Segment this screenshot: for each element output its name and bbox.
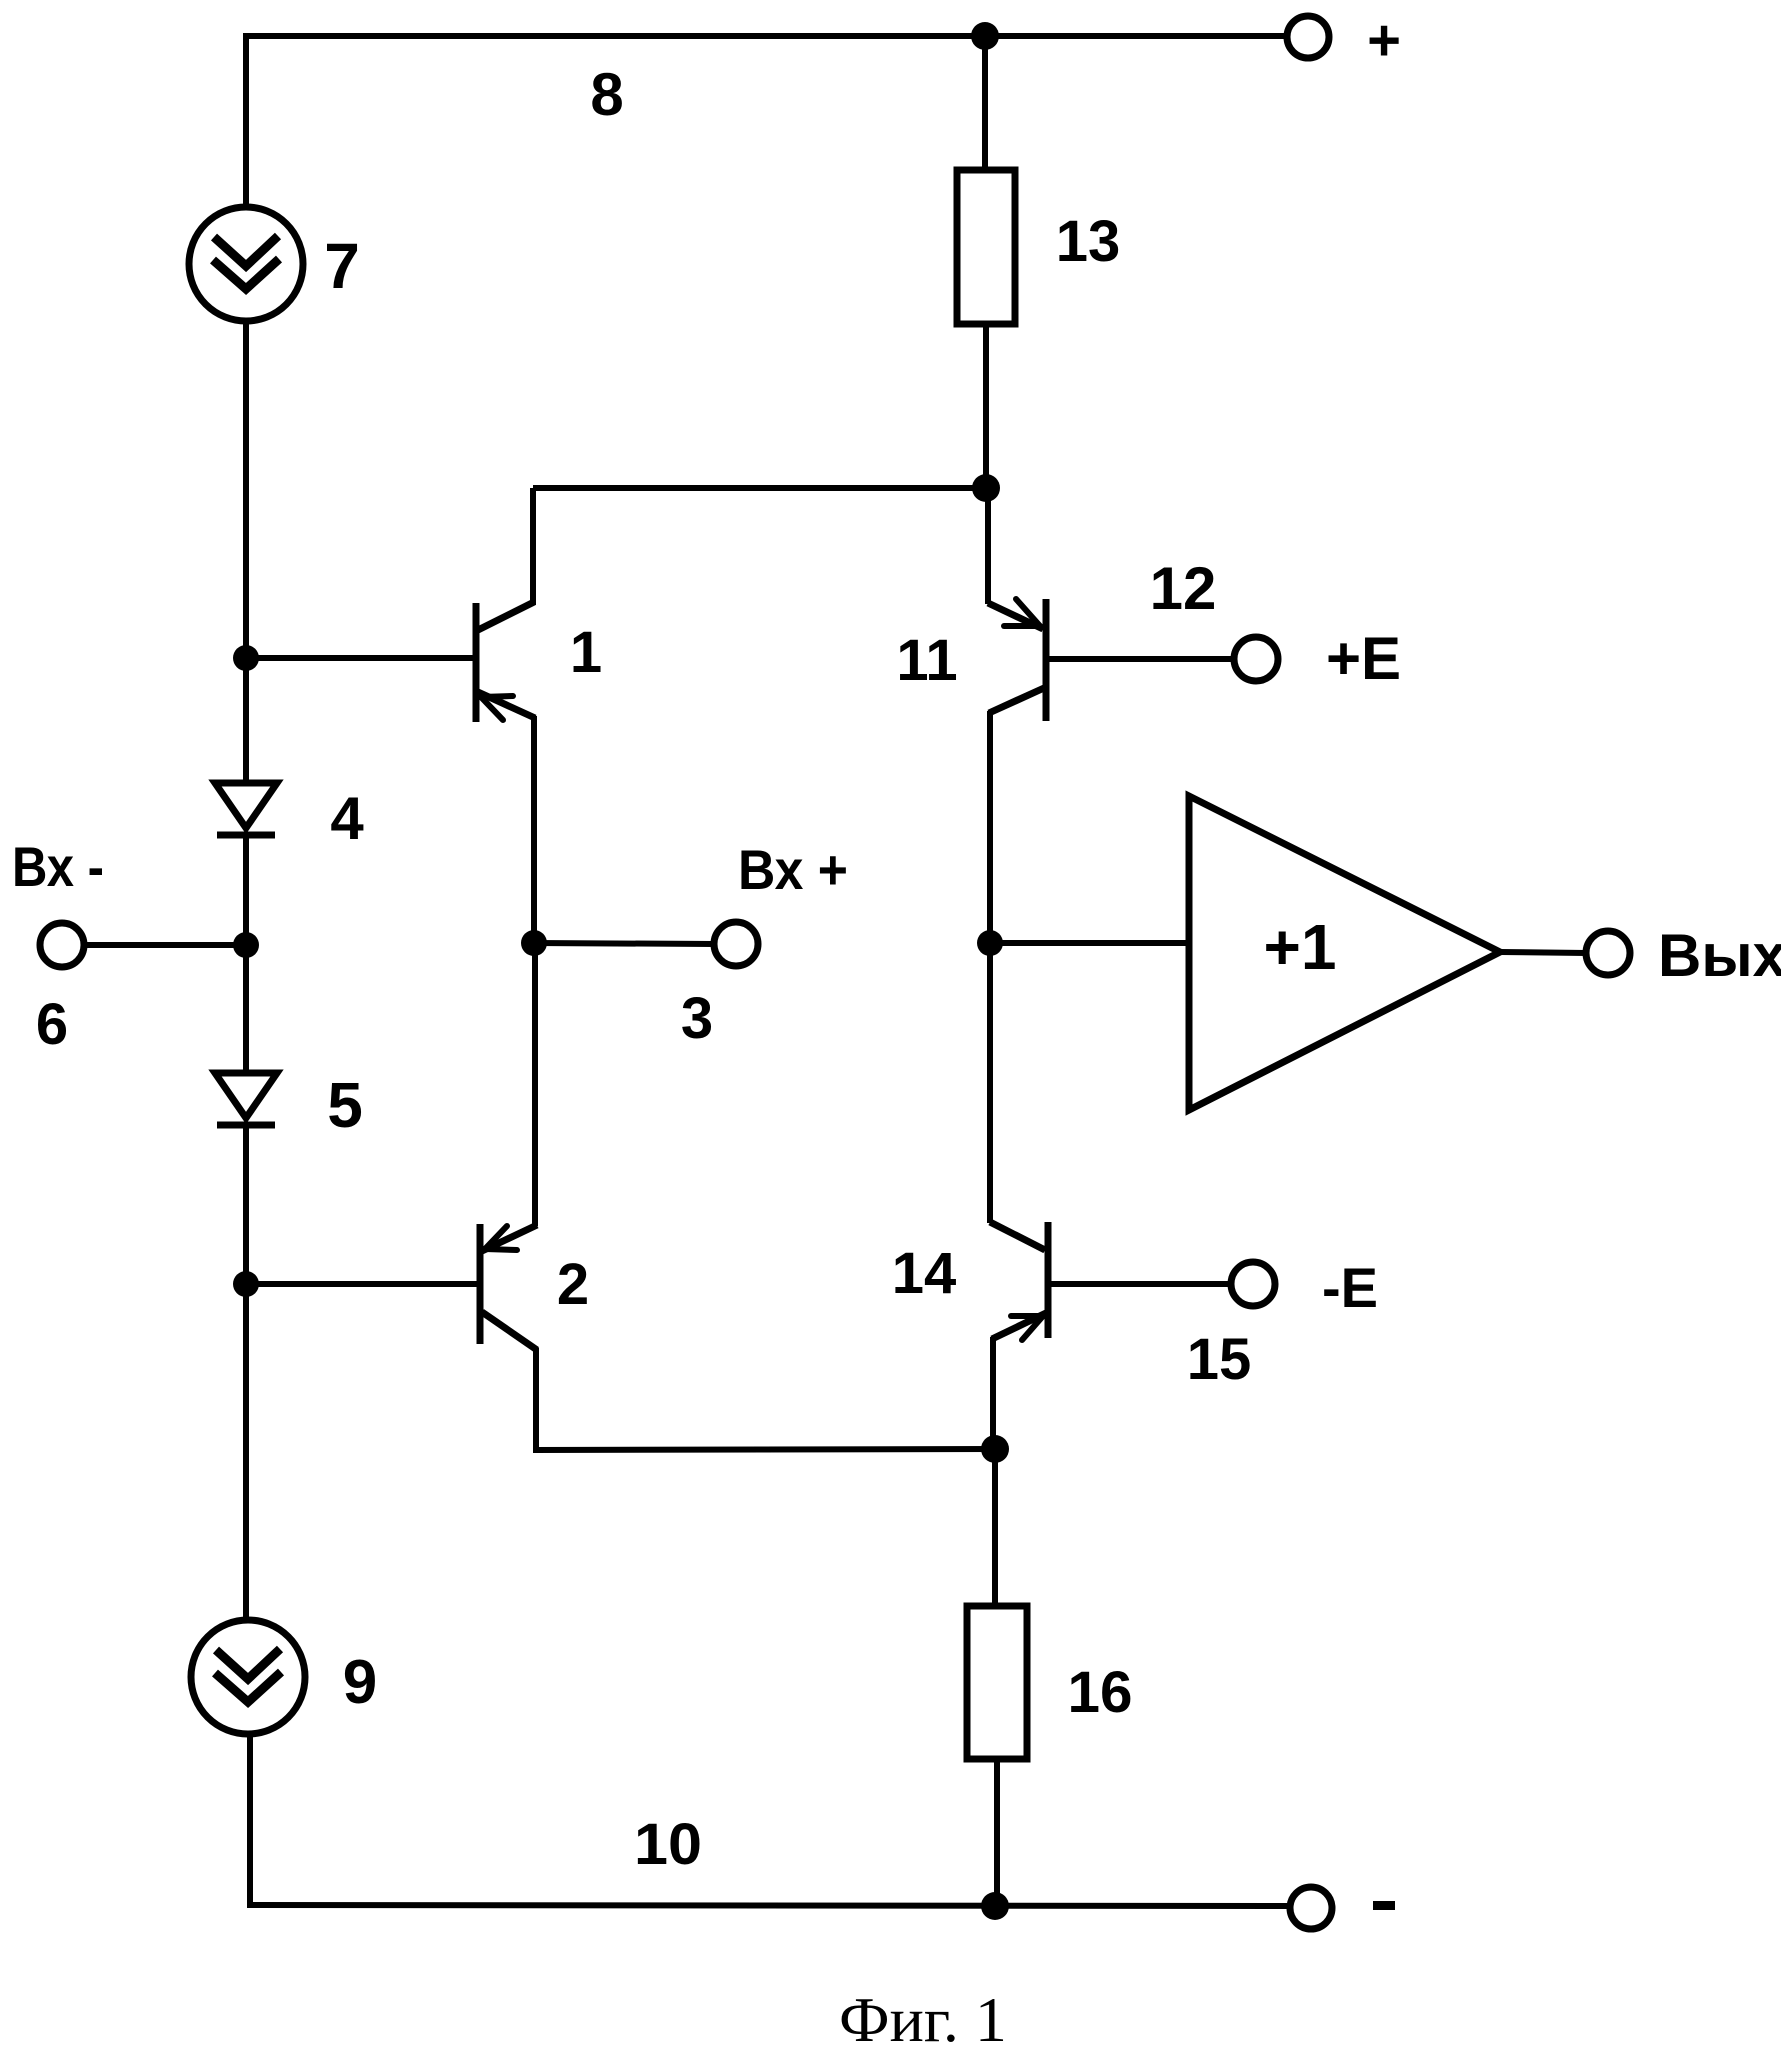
- diode 4: [215, 783, 277, 835]
- terminal Вх- (6): [40, 923, 84, 967]
- svg-text:+1: +1: [1264, 911, 1337, 983]
- svg-text:11: 11: [896, 628, 957, 693]
- wire amp input: [990, 940, 1192, 946]
- svg-text:3: 3: [681, 986, 713, 1051]
- svg-text:12: 12: [1150, 555, 1217, 622]
- wire diode4 to node 6: [243, 835, 249, 1073]
- node amp input junction: [977, 930, 1003, 956]
- transistor 14: [990, 943, 1230, 1450]
- wire top rail 8: [245, 33, 1286, 39]
- svg-text:6: 6: [36, 992, 68, 1057]
- terminal +E (12): [1234, 637, 1278, 681]
- node Вх+ left junction: [521, 930, 547, 956]
- wire bottom rail 10: [250, 1905, 1289, 1906]
- svg-text:16: 16: [1068, 1660, 1133, 1725]
- wire top inner rail: [533, 485, 986, 491]
- transistor 11: [988, 488, 1234, 945]
- current source 9: [191, 1620, 305, 1734]
- wire left rail upper: [243, 33, 249, 208]
- wire T2 base: [246, 1281, 482, 1287]
- svg-text:5: 5: [327, 1069, 363, 1141]
- node bottom junction: [981, 1892, 1009, 1920]
- wire diode5 to current source 9: [243, 1125, 249, 1620]
- wire resistor 16 top lead: [992, 1449, 998, 1608]
- svg-text:14: 14: [892, 1241, 957, 1306]
- svg-text:1: 1: [570, 620, 602, 685]
- diode 5: [215, 1073, 277, 1125]
- svg-text:2: 2: [557, 1252, 589, 1317]
- wire left rail middle: [243, 321, 249, 786]
- label -: [1373, 1901, 1395, 1910]
- current source 7: [189, 207, 303, 321]
- svg-text:8: 8: [590, 61, 623, 128]
- svg-text:4: 4: [330, 785, 364, 852]
- wire resistor 16 bottom lead: [994, 1759, 1000, 1906]
- svg-text:9: 9: [343, 1648, 377, 1717]
- terminal - (minus supply): [1290, 1887, 1332, 1929]
- node top junction: [971, 22, 999, 50]
- wire amp output: [1500, 952, 1586, 953]
- svg-text:Вх -: Вх -: [12, 835, 104, 898]
- wire T1 base: [246, 655, 478, 661]
- svg-text:Вых: Вых: [1658, 922, 1781, 989]
- svg-text:-Е: -Е: [1322, 1256, 1378, 1319]
- wire terminal 6 to rail: [84, 942, 246, 948]
- svg-text:Фиг. 1: Фиг. 1: [839, 1984, 1007, 2048]
- svg-text:+Е: +Е: [1326, 625, 1401, 692]
- resistor 16: [967, 1606, 1027, 1759]
- wire to Вх+ terminal: [534, 943, 714, 944]
- svg-text:15: 15: [1187, 1327, 1252, 1392]
- op-amp buffer +1: [1189, 796, 1500, 1110]
- svg-text:13: 13: [1056, 209, 1121, 274]
- node T1 base junction: [233, 645, 259, 671]
- node emitter junction: [981, 1435, 1009, 1463]
- transistor 2: [480, 943, 537, 1453]
- resistor 13: [957, 170, 1015, 324]
- wire resistor 13 bottom lead: [983, 324, 989, 490]
- terminal -E (15): [1231, 1262, 1275, 1306]
- transistor 1: [476, 488, 535, 945]
- wire resistor 13 top lead: [982, 36, 988, 172]
- terminal Вых: [1586, 931, 1630, 975]
- wire bottom inner rail: [536, 1449, 995, 1450]
- node T2 base junction: [233, 1271, 259, 1297]
- terminal Вх+ (3): [714, 922, 758, 966]
- terminal + (plus supply): [1287, 16, 1329, 58]
- wire left rail lower: [247, 1734, 253, 1908]
- node collector junction: [972, 474, 1000, 502]
- node Вх- junction: [233, 932, 259, 958]
- svg-text:10: 10: [634, 1812, 702, 1877]
- svg-text:7: 7: [324, 230, 360, 302]
- svg-text:Вх +: Вх +: [738, 838, 848, 901]
- svg-text:+: +: [1367, 8, 1401, 73]
